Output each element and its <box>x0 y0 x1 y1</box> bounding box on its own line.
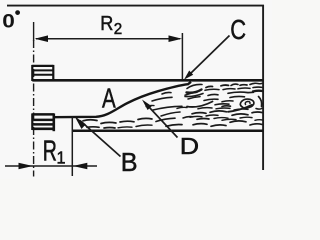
svg-text:C: C <box>230 16 246 46</box>
svg-text:B: B <box>121 149 138 177</box>
svg-text:R: R <box>100 12 113 35</box>
svg-text:A: A <box>102 84 116 115</box>
svg-text:D: D <box>180 134 199 160</box>
svg-text:2: 2 <box>114 20 122 37</box>
svg-text:0: 0 <box>2 11 15 32</box>
svg-text:1: 1 <box>57 148 66 168</box>
svg-text:R: R <box>43 136 57 168</box>
